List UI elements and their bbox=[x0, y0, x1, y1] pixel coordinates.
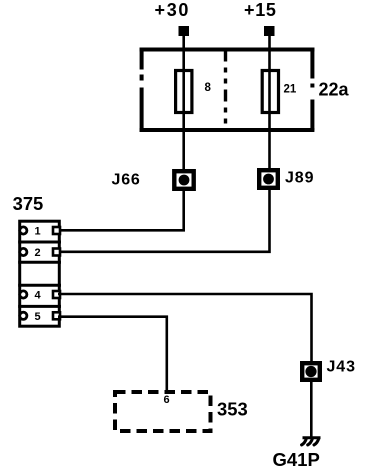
svg-text:375: 375 bbox=[13, 193, 44, 214]
wire bbox=[268, 36, 271, 50]
svg-text:6: 6 bbox=[164, 394, 170, 406]
block divider 1/2 bbox=[18, 241, 61, 244]
wire pin 5 to relay 353 bbox=[58, 317, 167, 392]
wire through fuse 8 bbox=[182, 50, 185, 170]
svg-text:G41P: G41P bbox=[273, 449, 320, 470]
svg-text:J89: J89 bbox=[285, 170, 314, 187]
connector J89 bbox=[259, 170, 278, 188]
fuse S8 bbox=[176, 71, 192, 113]
svg-text:8: 8 bbox=[205, 82, 212, 94]
relay box 353 (dashed) bbox=[115, 392, 211, 431]
svg-text:353: 353 bbox=[217, 399, 248, 420]
block divider gap/4 bbox=[18, 284, 61, 287]
pin 5 bbox=[20, 312, 60, 319]
wire through fuse 21 bbox=[268, 50, 271, 169]
ground G41P bbox=[302, 438, 321, 445]
wire pin 4 to J43 bbox=[58, 294, 312, 362]
connector block 375 outline bbox=[20, 221, 60, 326]
connector J43 bbox=[302, 363, 320, 380]
svg-text:1: 1 bbox=[35, 226, 41, 238]
svg-text:5: 5 bbox=[35, 311, 41, 323]
terminal 30 bbox=[179, 26, 190, 36]
block divider 2/gap bbox=[18, 261, 61, 264]
svg-text:J66: J66 bbox=[112, 172, 141, 189]
svg-text:+30: +30 bbox=[155, 0, 191, 20]
pin 4 bbox=[20, 291, 60, 298]
svg-text:4: 4 bbox=[35, 290, 42, 302]
pin 1 bbox=[20, 227, 60, 234]
pin 2 bbox=[20, 248, 60, 255]
svg-text:2: 2 bbox=[35, 247, 41, 259]
wire bbox=[182, 36, 185, 50]
block divider 4/5 bbox=[18, 305, 61, 308]
fuse box divider bbox=[224, 50, 227, 131]
svg-text:21: 21 bbox=[284, 84, 297, 96]
wire J89 to pin 2 bbox=[58, 188, 270, 252]
wire J43 to ground bbox=[310, 380, 313, 437]
svg-text:22a: 22a bbox=[319, 80, 350, 100]
wire J66 to pin 1 bbox=[58, 189, 184, 230]
fuse box 22a outline bbox=[140, 48, 315, 133]
connector J66 bbox=[174, 171, 193, 189]
terminal 15 bbox=[264, 26, 275, 36]
fuse S21 bbox=[262, 71, 278, 113]
svg-text:+15: +15 bbox=[244, 0, 277, 20]
svg-text:J43: J43 bbox=[327, 359, 356, 376]
